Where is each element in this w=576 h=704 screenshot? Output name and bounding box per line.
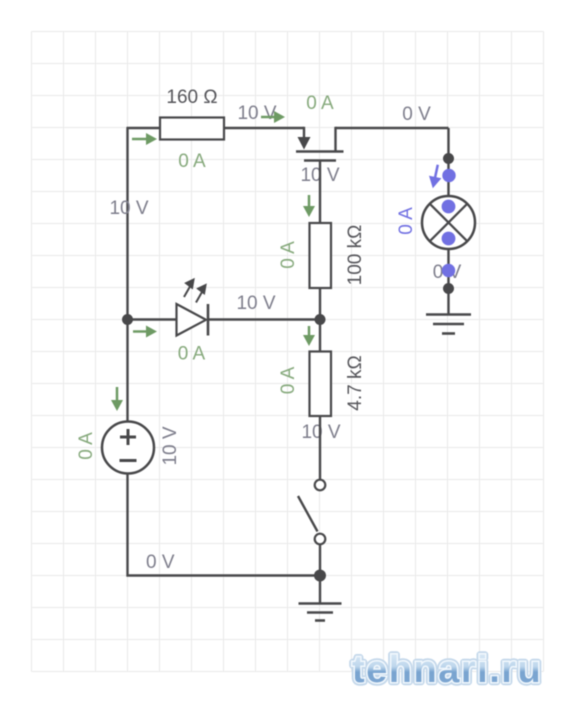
current label 0 A (R3) (278, 366, 299, 394)
current arrow on gate wire (261, 111, 285, 123)
current label 0 A (Q1 top) (306, 93, 334, 114)
voltage label 0 V (top right) (402, 104, 431, 125)
wire: Q1 to lamp branch (top right) (336, 127, 449, 129)
current label 0 A (R2) (278, 241, 299, 269)
voltage label 10 V (below R3) (301, 422, 340, 443)
voltage label 10 V (below Q1) (300, 165, 339, 186)
svg-text:0 A: 0 A (278, 366, 299, 394)
node: lamp bottom terminal dot (443, 283, 454, 294)
wire: left rail vertical (top node to V1+) (126, 128, 128, 423)
svg-text:0 A: 0 A (178, 344, 206, 365)
wire: mid node to R3 (319, 320, 321, 352)
svg-text:0 A: 0 A (396, 207, 417, 235)
wire: R3 to switch (319, 416, 321, 480)
label R1 value 160 Ω (166, 87, 217, 108)
wire: switch to bottom node (319, 545, 321, 576)
svg-text:160 Ω: 160 Ω (166, 87, 217, 108)
lamp L1 (422, 196, 475, 249)
node: left rail junction dot (122, 314, 133, 325)
current dot (blue) inside lamp bottom (442, 232, 456, 246)
wire: R1 to Q1 gate (224, 127, 304, 129)
voltage label 0 V (bottom rail) (146, 552, 175, 573)
svg-text:0 A: 0 A (76, 432, 97, 460)
svg-text:10 V: 10 V (160, 426, 181, 465)
wire: V1- to bottom rail (128, 474, 321, 576)
current arrow into R1 (132, 133, 157, 145)
current dot (blue) below lamp (442, 264, 455, 277)
ground (bottom) (299, 604, 342, 621)
svg-text:10 V: 10 V (236, 293, 275, 314)
resistor R2 100 kΩ (box) (310, 223, 332, 288)
svg-text:10 V: 10 V (109, 198, 148, 219)
wire: top-left horizontal to R1 (127, 127, 161, 129)
node: mid junction dot (315, 314, 326, 325)
wire: R2 to mid node (319, 288, 321, 320)
current label 0 A (lamp, blue) (396, 207, 417, 235)
current label 0 A below R1 (178, 151, 206, 172)
current label 0 A (V1) (76, 432, 97, 460)
wire: bottom node to ground (319, 576, 321, 604)
wire: lamp branch vertical top (447, 128, 449, 196)
label R3 value 4.7 kΩ (345, 355, 366, 410)
svg-text:0 V: 0 V (402, 104, 431, 125)
node: lamp top terminal dot (443, 153, 454, 164)
svg-text:4.7 kΩ: 4.7 kΩ (345, 355, 366, 410)
current arrow into V1 (111, 387, 123, 411)
switch S1 (open) (298, 480, 325, 545)
voltage label 0 V (lamp bottom) (433, 262, 462, 283)
resistor R3 4.7 kΩ (box) (310, 352, 332, 417)
current arrow into R3 (303, 326, 315, 346)
LED D1 (177, 280, 209, 336)
resistor R1 160 ohm (box) (160, 118, 224, 140)
svg-text:10 V: 10 V (237, 103, 276, 124)
svg-text:tehnari.ru: tehnari.ru (352, 649, 542, 691)
svg-text:0 A: 0 A (178, 151, 206, 172)
transistor Q1 (MOSFET) (296, 127, 344, 161)
current dot (blue) inside lamp top (442, 200, 456, 214)
current label 0 A (LED) (178, 344, 206, 365)
current arrow (blue) at lamp (428, 164, 444, 189)
voltage label 10 V (left rail) (109, 198, 148, 219)
label R2 value 100 kΩ (345, 225, 366, 286)
node: bottom junction dot (314, 570, 326, 582)
wire: Q1 source down to R2 (319, 161, 321, 224)
svg-text:0 A: 0 A (306, 93, 334, 114)
ground (lamp) (426, 315, 471, 334)
voltage source V1 10V (102, 422, 154, 474)
voltage label 10 V (gate node) (237, 103, 276, 124)
svg-text:100 kΩ: 100 kΩ (345, 225, 366, 286)
label V1 value 10 V (160, 426, 181, 465)
current dot (blue) above lamp (442, 169, 455, 182)
wire: lamp to ground (447, 249, 449, 315)
wire: LED to mid node (208, 318, 320, 320)
svg-text:0 V: 0 V (146, 552, 175, 573)
current arrow into R2 (303, 195, 315, 217)
wire: left rail node to LED (128, 318, 178, 320)
current arrow into LED (133, 326, 157, 338)
voltage label 10 V (LED cathode) (236, 293, 275, 314)
watermark tehnari.ru (352, 649, 542, 691)
svg-text:0 A: 0 A (278, 241, 299, 269)
